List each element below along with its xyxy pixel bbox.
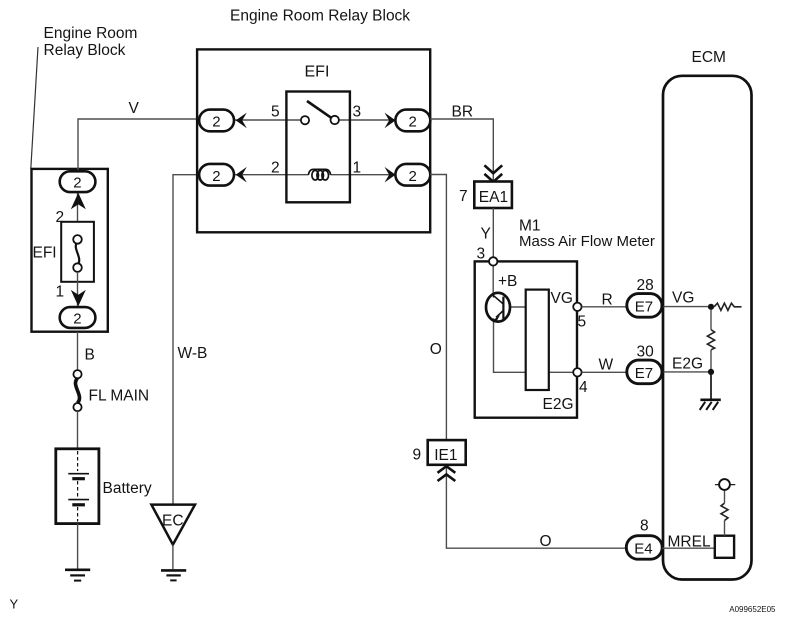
svg-text:2: 2 [73, 175, 81, 192]
node VG junction dot [708, 304, 714, 310]
resistor (vertical, MREL pullup) with leads [721, 490, 728, 536]
svg-text:EC: EC [162, 513, 184, 530]
wire relay pin3 (right, switch) [339, 119, 397, 121]
node E2G junction dot [708, 369, 714, 375]
svg-text:+B: +B [498, 273, 517, 290]
chevrons into EA1 [484, 165, 502, 182]
svg-text:4: 4 [579, 379, 588, 396]
svg-text:Battery: Battery [103, 480, 152, 497]
connector oval 2 (relay left bottom) [199, 164, 234, 186]
svg-text:Relay Block: Relay Block [44, 42, 126, 59]
svg-text:O: O [430, 341, 442, 358]
wire W from MAF pin4 to E7 [582, 371, 627, 373]
transistor Q (MAF) [486, 293, 510, 322]
svg-text:2: 2 [409, 114, 417, 131]
wire to chassis ground [710, 375, 712, 400]
arrowhead right (relay pin3) [385, 113, 396, 129]
pin 4 circle (MAF) [573, 368, 581, 376]
svg-text:3: 3 [353, 104, 362, 121]
svg-text:Engine Room Relay Block: Engine Room Relay Block [230, 8, 410, 25]
svg-text:2: 2 [212, 114, 220, 131]
wire transistor base to element [510, 306, 526, 308]
wire O from relay to IE1 [430, 175, 446, 441]
wire BR from relay to EA1 [430, 119, 493, 182]
pin 5 circle (MAF) [573, 303, 581, 311]
ground (EC) [161, 570, 186, 580]
mass air flow meter M1 box [475, 261, 577, 417]
wire relay pin5 (left, switch) [234, 119, 301, 121]
arrowhead left (relay pin5) [236, 113, 247, 129]
wire relay pin2 (left, coil) [234, 174, 308, 176]
resistor (vertical, ECM) with leads [707, 310, 714, 370]
svg-text:ECM: ECM [692, 49, 726, 66]
svg-text:O: O [540, 533, 552, 550]
wire E2G inside ECM [661, 371, 711, 373]
wire relay pin1 (right, coil) [331, 174, 397, 176]
connector oval 2 (fuse block bottom) [60, 307, 96, 328]
resistor (horizontal, ECM) [714, 303, 741, 310]
chassis ground (ECM) [700, 400, 721, 410]
MAF sensing element [526, 290, 549, 390]
svg-text:Y: Y [481, 226, 491, 243]
svg-text:Engine Room: Engine Room [44, 25, 138, 42]
svg-text:2: 2 [212, 168, 220, 185]
wire battery to ground [77, 524, 79, 570]
svg-text:B: B [85, 347, 95, 364]
engine room relay block box (left, fuse block) [32, 169, 108, 332]
pin 3 circle (MAF) [489, 257, 497, 265]
fuse EFI rectangle [61, 222, 94, 282]
svg-text:2: 2 [73, 310, 81, 327]
svg-text:VG: VG [672, 290, 694, 307]
svg-text:E7: E7 [635, 365, 653, 382]
relay switch lever [307, 101, 332, 118]
svg-text:1: 1 [56, 284, 65, 301]
connector oval 2 (fuse block top) [60, 171, 96, 192]
svg-text:E2G: E2G [543, 396, 574, 413]
connector E7 pin28 [627, 294, 662, 318]
fuse terminal circles [73, 235, 82, 272]
connector oval 2 (relay left top) [199, 110, 234, 132]
svg-text:A099652E05: A099652E05 [729, 605, 776, 614]
wire pin3 to transistor [492, 266, 494, 294]
wire inside fuse block (top) [77, 192, 79, 240]
battery [56, 449, 99, 524]
svg-text:E2G: E2G [672, 356, 703, 373]
svg-text:5: 5 [271, 104, 280, 121]
connector E4 pin8 [626, 536, 662, 560]
wire R from MAF pin5 to E7 [582, 306, 627, 308]
relay EFI inner box [286, 92, 350, 203]
svg-text:3: 3 [477, 246, 486, 263]
wire EC to ground [172, 545, 174, 569]
svg-text:E7: E7 [635, 299, 653, 316]
svg-text:V: V [129, 100, 140, 117]
svg-text:IE1: IE1 [434, 447, 457, 464]
wire below IE1 to E4 [446, 465, 626, 548]
svg-text:W: W [599, 357, 614, 374]
svg-text:W-B: W-B [178, 345, 208, 362]
svg-text:E4: E4 [634, 541, 652, 558]
connector IE1 [428, 440, 466, 465]
arrowhead down (fuse block) [71, 290, 86, 306]
label M1 Mass Air Flow Meter [519, 218, 655, 251]
wire FL MAIN to battery [77, 411, 79, 449]
engine room relay block box (middle) [197, 49, 430, 232]
svg-text:Y: Y [10, 597, 19, 612]
svg-text:VG: VG [551, 290, 573, 307]
fusible link FL MAIN [73, 370, 81, 411]
wire W-B vertical from relay to EC [173, 175, 197, 505]
wire Y from EA1 to MAF pin3 [492, 208, 494, 257]
svg-text:5: 5 [578, 314, 587, 331]
arrowhead right (relay pin1) [385, 167, 396, 183]
wire VG inside ECM [661, 306, 711, 308]
svg-text:28: 28 [637, 277, 654, 294]
connector EA1 [474, 182, 512, 209]
svg-text:2: 2 [271, 159, 280, 176]
svg-text:30: 30 [637, 344, 655, 361]
svg-text:FL MAIN: FL MAIN [89, 388, 150, 405]
wire B to FL MAIN [77, 332, 79, 371]
arrowhead up (fuse block) [71, 193, 86, 209]
svg-text:1: 1 [353, 159, 362, 176]
wire inside fuse block (bottom) [77, 272, 79, 308]
svg-text:R: R [602, 292, 613, 309]
svg-text:2: 2 [409, 168, 417, 185]
leader line from left label to relay block box [31, 47, 38, 169]
ground triangle EC [151, 505, 195, 545]
svg-text:BR: BR [452, 104, 474, 121]
relay switch contacts [301, 116, 339, 124]
svg-text:EA1: EA1 [479, 189, 508, 206]
wire MREL [662, 547, 715, 549]
fuse element squiggle [76, 242, 79, 265]
svg-text:EFI: EFI [305, 64, 330, 81]
relay coil L1 [308, 169, 330, 180]
connector oval 2 (relay right bottom) [395, 164, 430, 186]
wire V from fuse block to relay block [78, 119, 197, 171]
arrowhead left (relay pin2) [236, 167, 247, 183]
svg-text:8: 8 [640, 518, 649, 535]
chevrons out of IE1 [438, 466, 456, 481]
power circle symbol (MREL) [715, 479, 735, 490]
svg-text:M1: M1 [519, 218, 541, 235]
ground (battery) [65, 570, 90, 581]
svg-text:9: 9 [413, 447, 422, 464]
MREL driver square [715, 536, 734, 558]
wire transistor emitter to pin4 [494, 320, 578, 372]
svg-text:7: 7 [459, 188, 468, 205]
label: Engine Room Relay Block (left) [44, 25, 138, 59]
connector E7 pin30 [627, 360, 662, 384]
ECM box [663, 76, 752, 580]
connector oval 2 (relay right top) [395, 110, 430, 132]
svg-text:EFI: EFI [33, 245, 57, 262]
svg-text:Mass Air Flow Meter: Mass Air Flow Meter [519, 233, 655, 250]
